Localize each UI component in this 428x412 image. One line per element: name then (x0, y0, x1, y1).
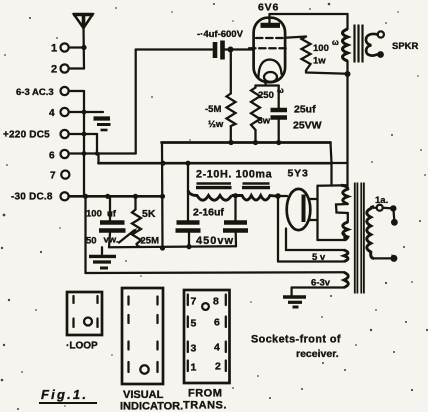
svg-text:100: 100 (313, 43, 329, 54)
svg-text:100: 100 (86, 209, 102, 220)
terminal 6 (49, 150, 136, 162)
svg-text:25M: 25M (141, 236, 160, 247)
svg-text:1: 1 (191, 362, 197, 374)
terminal 7 (50, 171, 69, 182)
loop socket (66, 292, 102, 352)
svg-text:450vw: 450vw (196, 235, 234, 247)
power transformer core (355, 183, 364, 294)
svg-text:5: 5 (191, 318, 197, 330)
svg-text:4: 4 (214, 342, 220, 354)
svg-text:receiver.: receiver. (296, 348, 339, 360)
terminal 5 : +220 DC (3, 130, 97, 141)
svg-text:3w: 3w (258, 116, 271, 127)
figure label (39, 387, 97, 403)
svg-text:5Y3: 5Y3 (288, 168, 309, 180)
vertical wire bus A left end down to node line (160, 143, 165, 251)
terminal 4 (49, 108, 103, 119)
svg-text:INDICATOR.: INDICATOR. (120, 401, 183, 412)
6-3v filament loop (292, 272, 349, 288)
svg-text:2-10H. 100ma: 2-10H. 100ma (196, 169, 273, 181)
svg-text:2: 2 (215, 361, 221, 373)
potentiometer 5K 25M (119, 196, 159, 247)
wire choke2 to 5Y3 (275, 193, 287, 199)
choke 2 (232, 184, 279, 201)
svg-text:vw.: vw. (104, 235, 119, 246)
terminal 2 (51, 64, 84, 76)
svg-text:-5M: -5M (205, 104, 221, 115)
svg-text:4: 4 (49, 108, 55, 119)
svg-text:·LOOP: ·LOOP (66, 341, 98, 352)
bottom bus (-30 DC line) (69, 194, 163, 199)
bottom rail / 6-3v top wire (86, 271, 345, 274)
svg-text:25uf: 25uf (294, 104, 316, 116)
bus A jog down to rectifier node (331, 143, 348, 186)
output transformer core (355, 25, 363, 63)
svg-text:ω: ω (332, 38, 339, 47)
bus B (screen supply line) (99, 161, 332, 166)
left filter box vertical (84, 196, 86, 273)
svg-text:½w: ½w (208, 119, 224, 130)
left terminal strip vertical wire (82, 91, 100, 196)
wire terminal5 down (96, 134, 98, 154)
svg-text:SPKR: SPKR (392, 41, 419, 52)
choke 1 (188, 163, 232, 220)
svg-text:1w: 1w (313, 56, 326, 67)
tube 6V6 (249, 2, 288, 86)
svg-text:6: 6 (49, 151, 55, 162)
capacitor .4uf 600V (197, 29, 254, 60)
ground at 6-3v (283, 288, 306, 308)
output transformer primary (343, 14, 351, 77)
svg-text:+220 DC5: +220 DC5 (3, 130, 50, 141)
svg-text:5K: 5K (142, 208, 156, 220)
caption sockets (251, 334, 341, 361)
electrolytic 2-16uf 450vw cap 1 (176, 207, 225, 247)
svg-text:2-16uf: 2-16uf (193, 207, 224, 219)
svg-text:6-3 AC.3: 6-3 AC.3 (16, 87, 54, 98)
svg-text:7: 7 (191, 296, 197, 308)
svg-text:50: 50 (86, 236, 97, 247)
rectifier plate wiring (318, 185, 348, 240)
svg-text:Sockets-front of: Sockets-front of (251, 334, 341, 346)
speaker secondary (366, 31, 419, 57)
resistor 100 ohm 1w (302, 37, 348, 74)
svg-text:FROM: FROM (188, 388, 222, 400)
svg-text:7: 7 (50, 171, 56, 182)
svg-text:25VW: 25VW (293, 120, 322, 132)
electrolytic 2-16uf 450vw cap 2 (196, 196, 248, 247)
antenna (73, 15, 94, 69)
svg-text:3: 3 (191, 343, 197, 355)
resistor 5M 1/2w (205, 50, 236, 143)
plate wire to output transformer (270, 13, 348, 15)
capacitor 25uf 25VW (271, 86, 322, 143)
svg-text:6: 6 (214, 317, 220, 329)
svg-text:5 v: 5 v (312, 252, 326, 263)
svg-text:2: 2 (51, 64, 57, 76)
svg-text:VISUAL: VISUAL (123, 389, 164, 401)
5v filament loop (278, 196, 348, 263)
terminal 3 : 6-3 AC (16, 87, 84, 98)
from trans socket (183, 290, 230, 412)
svg-text:uf: uf (107, 209, 117, 220)
wire jog terminal6 to bus B (97, 154, 99, 164)
power transformer HV winding (336, 185, 348, 240)
tube 5Y3 (287, 168, 318, 231)
svg-text:TRANS.: TRANS. (183, 400, 227, 412)
cathode node wire (256, 84, 279, 86)
grid coupling wire from terminal 6 riser (136, 50, 212, 154)
node line (cathode bias node) (109, 244, 236, 249)
svg-text:Fig.1.: Fig.1. (41, 387, 88, 402)
HV secondary right with 1a fuse (367, 195, 398, 262)
capacitor 100uf 50vw (86, 196, 126, 247)
screen grid wire (285, 37, 306, 38)
svg-text:-30 DC.8: -30 DC.8 (11, 192, 53, 203)
visual indicator socket (120, 288, 183, 412)
svg-text:6-3v: 6-3v (311, 278, 331, 289)
svg-text:8: 8 (213, 296, 219, 308)
bus A (B+ line) (162, 140, 331, 145)
svg-text:250: 250 (258, 90, 274, 101)
resistor 250 ohm 3w (251, 86, 284, 143)
bypass capacitor to ground at terminal 4 (94, 119, 111, 131)
B+ wire from output transformer down (346, 74, 348, 186)
terminal 1 (51, 43, 84, 55)
terminal 8 : -30 DC (11, 192, 69, 203)
ground under bias node (89, 247, 116, 268)
svg-text:6V6: 6V6 (258, 2, 279, 14)
svg-text:1: 1 (51, 43, 57, 55)
svg-text:-·4uf-600V: -·4uf-600V (197, 29, 244, 40)
